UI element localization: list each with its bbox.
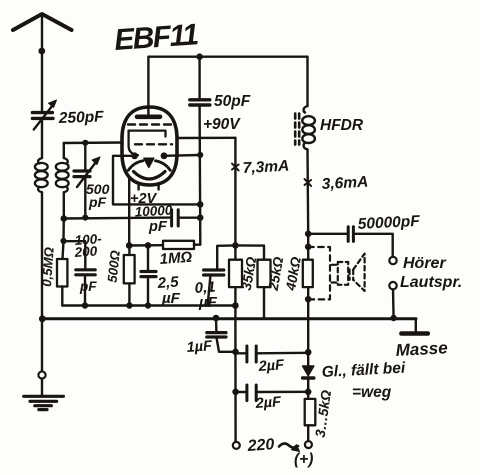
- wire HFDR to node: [306, 150, 309, 234]
- wire antenna down: [41, 14, 43, 111]
- svg-text:250pF: 250pF: [58, 108, 105, 127]
- node bus lautspr: [390, 315, 396, 321]
- svg-text:Hörer: Hörer: [403, 255, 446, 272]
- bus wire to ground: [42, 317, 416, 320]
- wire 35k extension below bus: [234, 319, 237, 442]
- wire 100-200pF top: [64, 241, 86, 269]
- capacitor 50pF: [190, 57, 210, 105]
- anode plate bar: [137, 115, 160, 120]
- svg-text:Gl., fällt bei: Gl., fällt bei: [321, 360, 406, 381]
- node 2.5uF top: [145, 242, 152, 249]
- grid g2 bracket: [129, 131, 166, 137]
- wire diode left lead: [113, 156, 200, 205]
- AC squiggle arrow: [279, 443, 300, 451]
- node bus 1uF: [213, 315, 220, 322]
- node AVC L2: [61, 215, 68, 222]
- inductor L1 antenna coil: [35, 158, 48, 192]
- resistor 1MOhm: [163, 241, 200, 249]
- node B top35k: [232, 242, 239, 249]
- svg-text:+90V: +90V: [203, 116, 241, 133]
- svg-text:Lautspr.: Lautspr.: [400, 274, 462, 291]
- resistor 40kOhm: [303, 260, 313, 319]
- svg-text:1µF: 1µF: [186, 338, 213, 356]
- resistor 25kOhm: [258, 260, 271, 319]
- Masse ground bar: [401, 331, 427, 336]
- envelope: [122, 107, 177, 185]
- ground earth symbol: [24, 396, 64, 409]
- node 50pF top: [196, 53, 203, 60]
- wire HFDR top: [306, 57, 308, 106]
- node speaker top: [305, 244, 312, 251]
- wire 0.5M column: [63, 219, 64, 260]
- svg-text:0,5MΩ: 0,5MΩ: [39, 246, 57, 287]
- wire 25k branch: [235, 245, 264, 259]
- node 35k return: [232, 302, 239, 309]
- svg-text:3,6mA: 3,6mA: [321, 174, 368, 193]
- wire L1 to bus: [41, 192, 43, 318]
- grid g3 dashed: [128, 123, 171, 125]
- wire Lautspr to bus: [392, 289, 395, 319]
- diode Gl rectifier: [303, 366, 314, 399]
- svg-text:1MΩ: 1MΩ: [159, 249, 193, 268]
- svg-text:EBF11: EBF11: [113, 18, 199, 57]
- node speaker bottom: [305, 296, 312, 303]
- svg-text:µF: µF: [198, 294, 218, 311]
- capacitor 2uF first: [236, 346, 309, 362]
- terminal Lautsprecher: [389, 282, 396, 289]
- cathode line: [129, 131, 138, 156]
- capacitor 500pF variable: [74, 143, 100, 218]
- wire node B vertical: [234, 138, 236, 260]
- svg-text:40kΩ: 40kΩ: [283, 255, 304, 292]
- node 2uF1 left: [232, 349, 239, 356]
- capacitor 1uF: [207, 319, 236, 352]
- svg-text:50pF: 50pF: [214, 93, 251, 110]
- wire connector to earth: [41, 379, 43, 395]
- svg-text:pF: pF: [88, 194, 107, 210]
- svg-text:=weg: =weg: [352, 384, 392, 401]
- capacitor 0.1uF: [204, 270, 224, 306]
- node 100-200pF bottom: [82, 302, 88, 308]
- svg-text:2µF: 2µF: [254, 394, 282, 412]
- node AVC 500pF: [82, 215, 88, 221]
- svg-text:µF: µF: [161, 290, 181, 307]
- node antenna dot: [38, 48, 45, 55]
- inductor L2 secondary coil: [56, 158, 69, 192]
- svg-text:Masse: Masse: [395, 338, 448, 360]
- cathode triangle: [144, 158, 154, 167]
- svg-text:pF: pF: [79, 279, 97, 294]
- capacitor 2uF second: [236, 385, 309, 401]
- cathode arc left: [128, 161, 143, 171]
- svg-text:3…5kΩ: 3…5kΩ: [313, 389, 335, 438]
- resistor 3-5kOhm: [305, 399, 316, 441]
- wire cathode line: [129, 244, 163, 247]
- wire node to 40k: [307, 234, 309, 260]
- wire 0.1uF branch: [217, 245, 235, 269]
- diode plate left: [131, 152, 138, 159]
- svg-text:500Ω: 500Ω: [105, 249, 123, 283]
- wire L2 top to grid line: [63, 143, 65, 158]
- wire diode column: [307, 319, 309, 366]
- capacitor 250pF variable: [32, 100, 56, 130]
- svg-text:200: 200: [73, 243, 98, 260]
- tube EBF11: [122, 57, 177, 190]
- wire top anode rail: [148, 56, 307, 58]
- heater stub right: [157, 183, 159, 189]
- current mark 7.3mA: [232, 164, 239, 171]
- svg-text:220: 220: [246, 436, 275, 455]
- heater stub left: [137, 183, 139, 189]
- terminal plus: [305, 441, 312, 448]
- node 500pF top: [82, 140, 88, 146]
- grid g1 dashed: [135, 143, 172, 145]
- capacitor 2.5uF: [141, 245, 156, 305]
- inductor HFDR choke: [302, 106, 315, 150]
- resistor 500Ohm: [124, 246, 135, 306]
- svg-text:HFDR: HFDR: [320, 117, 364, 134]
- capacitor 10000pF: [172, 210, 201, 226]
- svg-text:pF: pF: [148, 219, 168, 235]
- wire 250pF to coil L1: [41, 118, 43, 158]
- svg-text:50000pF: 50000pF: [357, 213, 420, 233]
- terminal Hoerer: [389, 257, 396, 264]
- anode lead: [147, 57, 149, 117]
- node bus antenna: [39, 315, 46, 322]
- capacitor 50000pF: [308, 227, 393, 257]
- node diode top: [305, 349, 312, 356]
- HFDR core dashed: [295, 114, 299, 145]
- Masse ground stub: [415, 319, 417, 332]
- speaker dashed symbol: [332, 254, 365, 291]
- node return 2.5uF: [145, 302, 151, 308]
- svg-text:2µF: 2µF: [257, 357, 285, 375]
- svg-text:+2V: +2V: [130, 191, 158, 207]
- wire bus to earth: [41, 319, 43, 371]
- terminal AC left: [233, 442, 240, 449]
- wire diode right lead: [164, 154, 200, 157]
- wire screen lead: [177, 137, 236, 140]
- node diode bottom: [305, 389, 312, 396]
- node A line204: [197, 201, 204, 208]
- node earth connector: [38, 371, 45, 378]
- current mark 3.6mA: [305, 179, 312, 186]
- node 100-200pF branch: [60, 238, 66, 244]
- wire node A vertical: [198, 105, 201, 245]
- node 50000pF branch: [305, 231, 312, 238]
- diode plate right: [161, 152, 168, 159]
- speaker dashed loop: [308, 247, 330, 299]
- capacitor 100-200pF: [76, 270, 95, 306]
- node 2uF2 left: [232, 389, 239, 396]
- svg-text:7,3mA: 7,3mA: [242, 158, 289, 177]
- wire lower return line: [62, 304, 235, 306]
- wire cathode lead down: [128, 177, 130, 246]
- node A line218: [197, 214, 204, 221]
- cathode arc right: [156, 161, 171, 171]
- resistor 35kOhm: [229, 260, 242, 319]
- wire grid line to tube: [64, 141, 123, 144]
- node A diode right: [197, 152, 203, 158]
- wire AVC line: [64, 216, 171, 219]
- heater arc: [134, 172, 166, 180]
- resistor 0.5MOhm: [57, 259, 67, 306]
- antenna: [13, 14, 72, 30]
- wire L2 bottom to AVC node: [63, 192, 65, 218]
- node cathode line 500Ohm: [126, 242, 133, 249]
- svg-text:(+): (+): [294, 451, 313, 468]
- node return 500Ohm: [126, 302, 132, 308]
